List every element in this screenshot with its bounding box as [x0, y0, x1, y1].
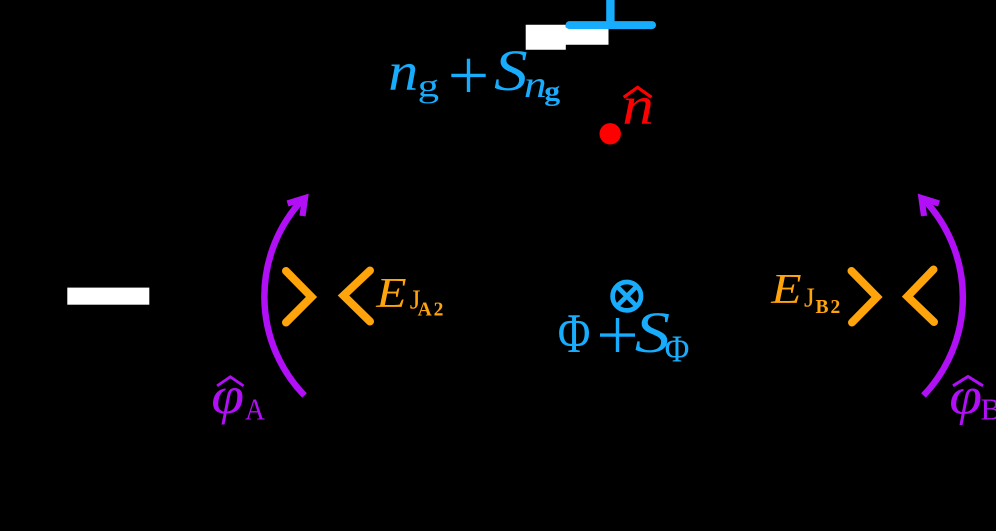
plus sign of gate label: [451, 59, 485, 92]
svg-text:E: E: [770, 266, 801, 313]
label n-hat (red): [622, 75, 654, 136]
hat accent over n (red): [624, 87, 652, 97]
label phi_A (purple): [211, 367, 265, 427]
white gate electrode block (stepped plate, top): [526, 25, 609, 50]
node n-hat dot (red island node): [600, 123, 621, 144]
svg-text:g: g: [544, 77, 560, 106]
label phi_B (purple): [949, 367, 996, 426]
gate charge label n_g + S_ng (blue): [388, 38, 560, 106]
svg-text:n: n: [524, 64, 547, 106]
svg-text:S: S: [494, 38, 528, 103]
svg-text:φ: φ: [211, 367, 244, 425]
svg-text:B: B: [981, 392, 996, 427]
label E_JB2 (orange): [770, 266, 842, 318]
Josephson junction EJB2 right chevron pair (orange): [852, 270, 935, 323]
svg-text:B2: B2: [816, 297, 843, 318]
label phi_B hat (purple): [953, 377, 983, 386]
svg-text:A2: A2: [418, 300, 446, 321]
svg-text:J: J: [804, 281, 815, 312]
phase arrow arc phi_B (purple, right): [924, 199, 963, 396]
white electrode bar (left lead plate): [67, 288, 149, 305]
svg-text:n: n: [622, 75, 654, 136]
svg-text:g: g: [418, 68, 439, 104]
svg-text:φ: φ: [949, 367, 982, 425]
flux symbol circle-X (blue): [613, 282, 641, 310]
capacitor Cg top plate (blue bar): [570, 21, 653, 29]
svg-text:E: E: [375, 270, 406, 317]
capacitor Cg lead (blue stem to top edge): [606, 0, 614, 25]
arrowhead of phi_B arc: [922, 198, 940, 216]
flux label Phi + S_Phi (blue): [558, 300, 690, 370]
plus sign of flux label: [600, 318, 635, 352]
Josephson junction EJA2 left chevron pair (orange): [286, 271, 370, 323]
label E_JA2 (orange): [375, 270, 445, 321]
phase arrow arc phi_A (purple, left): [264, 199, 304, 396]
svg-text:Φ: Φ: [558, 303, 591, 365]
svg-text:Φ: Φ: [665, 328, 690, 370]
arrowhead of phi_A arc: [288, 198, 306, 216]
label phi_A hat (purple): [217, 377, 243, 386]
svg-text:A: A: [245, 393, 265, 427]
svg-text:n: n: [388, 42, 418, 102]
